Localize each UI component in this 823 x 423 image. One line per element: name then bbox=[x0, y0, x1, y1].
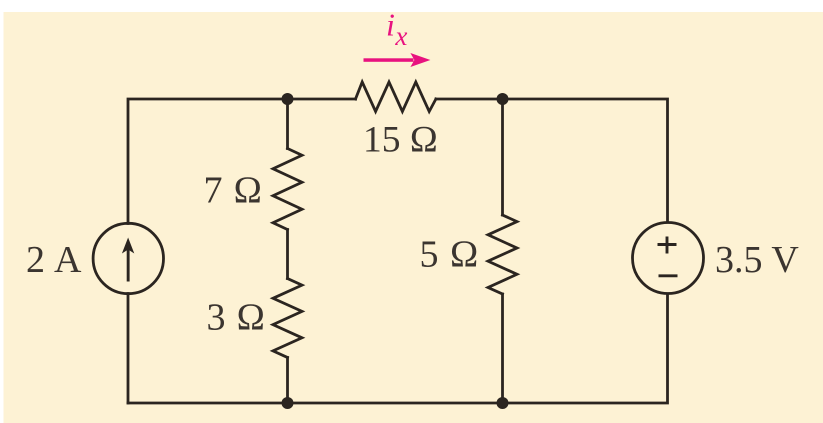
node D dot bbox=[497, 397, 509, 409]
current source I1 circle bbox=[93, 223, 163, 293]
svg-text:15 Ω: 15 Ω bbox=[363, 120, 438, 161]
voltage source V1 circle bbox=[633, 223, 704, 294]
wire current source bottom to bottom-left corner bbox=[127, 294, 130, 404]
node B dot bbox=[497, 93, 509, 105]
node C dot bbox=[282, 397, 294, 409]
voltage source V1 minus sign bbox=[659, 274, 678, 277]
wire 5-ohm to bottom node D bbox=[501, 294, 504, 403]
wire 15-ohm right lead to node B and top-right corner bbox=[436, 99, 668, 222]
resistor R1 7-ohm vertical zigzag bbox=[273, 149, 302, 230]
wire between 7-ohm and 3-ohm bbox=[286, 230, 289, 279]
wire node B down to 5-ohm bbox=[501, 99, 504, 215]
svg-text:3.5 V: 3.5 V bbox=[715, 239, 799, 281]
svg-text:2 A: 2 A bbox=[26, 239, 82, 281]
current source I1 arrow bbox=[122, 238, 134, 282]
svg-text:7 Ω: 7 Ω bbox=[204, 170, 263, 212]
resistor R3 15-ohm horizontal zigzag bbox=[356, 82, 436, 112]
wire node A to 15-ohm left lead bbox=[288, 98, 356, 101]
svg-text:3 Ω: 3 Ω bbox=[207, 297, 266, 339]
resistor R4 5-ohm vertical zigzag bbox=[488, 215, 517, 294]
wire node A down to 7-ohm bbox=[286, 99, 289, 149]
current arrow i_x bbox=[364, 53, 431, 67]
resistor R2 3-ohm vertical zigzag bbox=[273, 279, 302, 358]
wire 3-ohm to bottom node C bbox=[286, 358, 289, 404]
svg-text:5 Ω: 5 Ω bbox=[420, 234, 480, 276]
wire top-left segment: left corner to node A bbox=[128, 99, 288, 224]
voltage source V1 plus sign bbox=[658, 237, 677, 254]
node A dot bbox=[282, 93, 294, 105]
wire right source bottom to bottom-right corner bbox=[128, 294, 668, 403]
